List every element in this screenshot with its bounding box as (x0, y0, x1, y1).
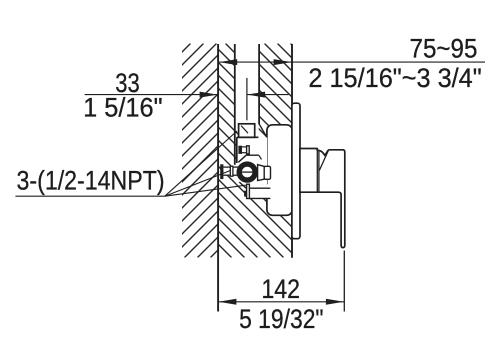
side inlet port ring (237, 161, 258, 182)
leader to bottom port (165, 185, 246, 196)
wall line V4 (front wall surface, x=292) (291, 44, 293, 258)
valve centre line (246, 78, 248, 120)
handle joint double line (316, 150, 318, 191)
bottom outlet port tube (247, 184, 271, 198)
handle (base + lever) outline (300, 149, 345, 248)
upper small stub (239, 146, 250, 154)
wall opening chamfer line (259, 124, 267, 137)
cartridge stem (258, 165, 265, 181)
leader to top port (165, 131, 237, 196)
svg-text:75~95: 75~95 (410, 34, 478, 63)
wall line V3 (x=259.1) (258, 44, 260, 124)
dimension line 142 (218, 301, 344, 303)
label underline (15, 195, 164, 197)
svg-text:2 15/16"~3 3/4": 2 15/16"~3 3/4" (308, 62, 481, 93)
wall line V2 (x=234.8) (234, 44, 236, 165)
rear port end cap (dark) (220, 164, 223, 179)
leader to rear port (165, 170, 231, 196)
white cavity strip between min/max wall surfaces (235, 42, 258, 124)
svg-text:1 5/16": 1 5/16" (83, 92, 162, 123)
handle lever neck diagonal (319, 150, 328, 171)
escutcheon plate (292, 103, 300, 239)
dimension line 33 (85, 94, 218, 96)
hex nut silhouette (246, 154, 259, 156)
valve body block (237, 137, 267, 184)
svg-text:5 19/32": 5 19/32" (239, 304, 323, 334)
extension line (handle front) (343, 251, 345, 312)
valve mounting flange (in-wall) (267, 125, 292, 216)
top outlet port (239, 124, 255, 138)
svg-text:3-(1/2-14NPT): 3-(1/2-14NPT) (17, 166, 165, 196)
left (rear) port tube (223, 167, 238, 176)
wall line V1 (finished wall back face, x=218) (217, 44, 219, 312)
svg-text:142: 142 (261, 275, 300, 305)
dimension line 75~95 (219, 61, 485, 63)
